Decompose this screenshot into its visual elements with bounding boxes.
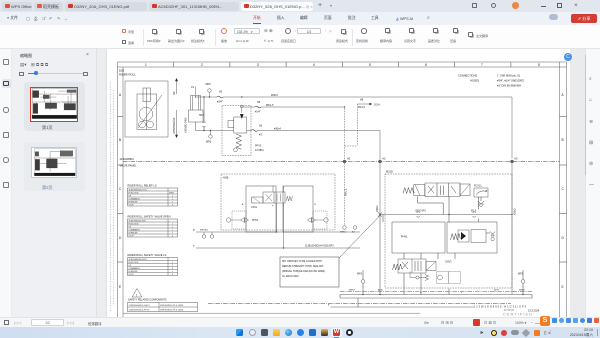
svg-text:#8x1,5: #8x1,5 <box>266 104 274 107</box>
svg-text:H2: H2 <box>219 91 223 94</box>
connections note (top right) <box>458 74 524 88</box>
orifice #1,0 <box>471 210 477 218</box>
hydraulic cylinder #100/80-2450 <box>189 87 204 131</box>
svg-text:8: 8 <box>538 63 540 67</box>
wire: LS pilot line to H5 <box>240 104 345 107</box>
panel boundary at rails (dash-dot) <box>340 290 532 292</box>
svg-text:MP63: MP63 <box>519 289 525 291</box>
svg-text:GSV1: GSV1 <box>445 261 452 264</box>
svg-text:IN RELIEF: IN RELIEF <box>129 271 139 273</box>
drawing frame <box>118 62 567 320</box>
svg-text:1: 1 <box>172 265 173 267</box>
test point MP1 <box>357 270 365 295</box>
proportional valve (M31D top) <box>403 183 470 197</box>
note box SP1 orifices <box>280 216 380 288</box>
copyright margin text (rotated) <box>111 82 114 312</box>
svg-text:STOP: STOP <box>129 274 135 276</box>
svg-text:FUNCTION: FUNCTION <box>129 224 139 226</box>
svg-text:1" SAE 8000 psi, 61: 1" SAE 8000 psi, 61 <box>497 74 521 78</box>
hose H3 <box>252 124 263 136</box>
svg-text:RIDER ROLL: RIDER ROLL <box>119 73 136 77</box>
flow control FCV11 <box>474 185 488 208</box>
svg-text:1: 1 <box>172 233 173 235</box>
svg-text:HSB: HSB <box>223 176 229 180</box>
test point MP5 <box>206 131 212 144</box>
svg-text:#25x3: #25x3 <box>271 94 278 97</box>
svg-text:FCV11: FCV11 <box>474 185 482 188</box>
wire: #25x3 turns down at right <box>511 97 513 159</box>
svg-text:T: T <box>193 244 195 248</box>
svg-text:Ø1,0: Ø1,0 <box>471 210 477 213</box>
svg-text:1: 1 <box>172 271 173 273</box>
svg-text:113KHB5D3: 113KHB5D3 <box>120 157 135 161</box>
svg-text:P: P <box>193 228 195 232</box>
svg-text:A: A <box>242 203 244 206</box>
svg-text:#20x3: #20x3 <box>514 208 517 215</box>
svg-text:B2 B: B2 B <box>494 289 499 291</box>
svg-text:MEDIUM STRENGHT HYDR. SEALANT: MEDIUM STRENGHT HYDR. SEALANT <box>282 265 324 268</box>
svg-text:I.E. ERGO #202: I.E. ERGO #202 <box>282 276 299 278</box>
svg-text:1: 1 <box>172 202 173 204</box>
svg-text:UP: UP <box>129 227 132 229</box>
svg-text:DOWNWARDS: DOWNWARDS <box>173 117 176 134</box>
hose H5 <box>255 101 261 114</box>
rail P <box>193 228 360 232</box>
svg-text:3: 3 <box>257 63 259 67</box>
svg-text:A: A <box>119 93 122 97</box>
svg-text:1: 1 <box>172 262 173 264</box>
table: rider roll relief ls <box>128 184 178 207</box>
node H5 <box>343 158 351 164</box>
svg-text:1HP4003110 PL4 CAT3: 1HP4003110 PL4 CAT3 <box>160 304 184 307</box>
M31D manifold (dashed box) <box>385 170 512 289</box>
svg-text:MP3 A3: MP3 A3 <box>200 229 208 232</box>
svg-text:VALVE PANEL: VALVE PANEL <box>120 164 138 168</box>
svg-text:T: T <box>461 293 463 295</box>
svg-text:M31D: M31D <box>386 170 393 174</box>
svg-text:STOP: STOP <box>129 205 135 207</box>
title D20 RIDER ROLL <box>119 69 136 77</box>
svg-text:PHV1: PHV1 <box>252 219 259 222</box>
svg-text:VIEW: VIEW <box>169 193 174 195</box>
svg-text:COMMANDS: COMMANDS <box>129 267 141 270</box>
svg-text:#1" DIN EN 856/4SH: #1" DIN EN 856/4SH <box>497 84 521 88</box>
wires HSB internal <box>273 186 284 248</box>
rail T <box>193 244 360 248</box>
svg-text:UP: UP <box>129 196 132 198</box>
node H2 <box>511 158 519 164</box>
svg-text:PFV3: PFV3 <box>255 145 262 148</box>
table: rider roll safety valve ls <box>128 253 178 276</box>
svg-text:113B1GH05D3-GSV1: 113B1GH05D3-GSV1 <box>129 259 147 261</box>
svg-text:D: D <box>562 236 565 240</box>
svg-text:C: C <box>562 187 565 191</box>
svg-text:H2: H2 <box>515 158 519 161</box>
manifold sub-block left <box>246 186 276 232</box>
svg-text:IN RELIEF: IN RELIEF <box>129 233 139 235</box>
wire: pressure line #25x3 <box>197 94 513 97</box>
wire: junction down to rail A2 <box>379 215 381 295</box>
svg-text:MP6: MP6 <box>206 83 212 86</box>
svg-text:SP3: SP3 <box>199 114 204 117</box>
valve GSV1 <box>393 253 437 295</box>
svg-text:P: P <box>420 293 422 295</box>
ball valve (right) <box>308 211 329 229</box>
svg-text:#30x4: #30x4 <box>376 205 379 212</box>
svg-text:!: ! <box>136 293 137 297</box>
test point MP2 <box>518 270 525 295</box>
svg-text:H5: H5 <box>347 158 351 161</box>
machine box (rider roll mechanism) <box>125 81 168 137</box>
pilot check valve row under GSV1 <box>410 261 461 284</box>
orifice SP3 <box>199 97 206 131</box>
svg-text:CONNECTIONS: CONNECTIONS <box>458 74 477 78</box>
svg-text:FUNCTION: FUNCTION <box>129 262 139 264</box>
svg-text:RIDER ROLL SAFETY VALVE OPEN: RIDER ROLL SAFETY VALVE OPEN <box>128 215 171 219</box>
ball valve PHV1 (left) <box>226 211 259 229</box>
return line T <box>328 303 474 307</box>
svg-text:C: C <box>119 187 122 191</box>
svg-text:H1: H1 <box>383 158 387 161</box>
svg-text:6: 6 <box>425 63 427 67</box>
svg-text:#1": #1" <box>259 133 263 136</box>
svg-text:MP2: MP2 <box>518 273 524 276</box>
svg-text:COMMANDS: COMMANDS <box>129 198 141 201</box>
svg-text:1: 1 <box>172 196 173 198</box>
svg-text:5: 5 <box>369 63 371 67</box>
svg-text:IN RELIEF: IN RELIEF <box>129 202 139 204</box>
valve panel boundary (dash-dot) <box>120 157 560 168</box>
svg-text:A2 A: A2 A <box>378 288 383 291</box>
svg-text:#8x1,5: #8x1,5 <box>345 188 348 196</box>
wire: cylinder line #30x4 <box>196 127 381 130</box>
svg-text:2: 2 <box>201 63 203 67</box>
svg-text:MP61: MP61 <box>340 232 346 234</box>
svg-text:MP62: MP62 <box>349 289 355 291</box>
svg-text:4: 4 <box>313 63 315 67</box>
svg-text:H5: H5 <box>257 101 261 104</box>
svg-text:B: B <box>562 138 564 142</box>
svg-text:CSV1: CSV1 <box>251 206 258 209</box>
svg-text:SP1 ORIFICES TO BE LOCKED WITH: SP1 ORIFICES TO BE LOCKED WITH <box>282 261 322 263</box>
svg-text:LS: LS <box>191 86 194 89</box>
svg-text:Ø0,8 SP1: Ø0,8 SP1 <box>416 210 427 213</box>
svg-text:1: 1 <box>172 199 173 201</box>
svg-text:H3: H3 <box>259 124 263 127</box>
svg-text:#100/80-2450: #100/80-2450 <box>185 117 188 133</box>
up arrow <box>175 78 178 94</box>
warning triangle <box>132 289 142 298</box>
sogou input bar <box>540 316 600 327</box>
svg-text:113B1GH05D3-PCV1: 113B1GH05D3-PCV1 <box>129 190 147 192</box>
relief valve PFV3 (dashed enclosure) <box>222 105 264 156</box>
HSB manifold (dashed box) <box>221 174 335 230</box>
svg-text:113B1GH05D3-GSV1: 113B1GH05D3-GSV1 <box>129 305 151 307</box>
svg-text:#8x1,5: #8x1,5 <box>358 107 366 109</box>
svg-text:113B1GH05D3-PFV5: 113B1GH05D3-PFV5 <box>129 310 151 312</box>
svg-text:COMMANDS: COMMANDS <box>129 229 141 232</box>
document page <box>107 49 570 318</box>
svg-text:0: 0 <box>172 236 173 238</box>
svg-text:PHV1: PHV1 <box>401 236 408 239</box>
svg-text:0: 0 <box>172 268 173 270</box>
panel boundary bottom (dash-dot) <box>123 304 511 314</box>
svg-text:P: P <box>272 206 274 208</box>
svg-text:B: B <box>119 138 121 142</box>
svg-text:2/3:A: 2/3:A <box>374 103 380 106</box>
table: safety related components <box>128 298 198 311</box>
svg-text:MP5: MP5 <box>206 141 212 144</box>
valve CSV1 (4/2 solenoid valve) <box>242 192 317 209</box>
wire: orifice line SP1 <box>378 197 512 217</box>
svg-text:SAFETY RELATED COMPONENTS: SAFETY RELATED COMPONENTS <box>128 298 167 301</box>
bottom rail B <box>340 289 532 308</box>
svg-text:#30x4: #30x4 <box>274 127 281 130</box>
ruler ticks and numbers <box>118 62 567 262</box>
svg-text:H8: H8 <box>360 99 364 102</box>
sub-block left (PHV1 chamber) <box>392 222 445 253</box>
svg-text:UP: UP <box>129 265 132 267</box>
svg-text:1: 1 <box>145 63 147 67</box>
svg-text:STOP: STOP <box>129 236 135 238</box>
title strip bottom <box>474 305 540 317</box>
svg-text:7: 7 <box>481 63 483 67</box>
svg-text:CERTIFIED: CERTIFIED <box>503 312 533 317</box>
svg-text:MP1: MP1 <box>357 273 363 276</box>
svg-text:B: B <box>315 204 317 206</box>
svg-text:D: D <box>119 236 122 240</box>
node H1 <box>379 131 387 164</box>
svg-text:#3/4": #3/4" <box>217 101 223 104</box>
svg-text:(PREVAIL TORQUE DNA (EN ISO 10: (PREVAIL TORQUE DNA (EN ISO 10964) <box>282 270 325 273</box>
svg-text:HOSES: HOSES <box>470 79 479 83</box>
svg-text:113B1GH5D3-HVG31/SP3: 113B1GH5D3-HVG31/SP3 <box>305 245 334 248</box>
svg-text:0: 0 <box>172 274 173 276</box>
wires M31D verticals <box>383 197 514 259</box>
svg-text:UP: UP <box>172 91 176 95</box>
svg-text:113W1GH5565-H1G31/SP3: 113W1GH5565-H1G31/SP3 <box>474 305 527 309</box>
test point MP3 <box>202 232 214 238</box>
node H8 branch to sheet 2/3:A <box>345 104 358 161</box>
hose H2 <box>217 91 223 104</box>
thumb 2 <box>24 142 85 191</box>
svg-text:RIDER ROLL SAFETY VALVE LS: RIDER ROLL SAFETY VALVE LS <box>128 253 167 257</box>
orifice SP1 #0,8 <box>416 210 427 218</box>
svg-text:E: E <box>562 285 564 289</box>
svg-text:E: E <box>119 285 121 289</box>
manifold sub-block right <box>283 186 313 232</box>
svg-text:RIDER ROLL RELIEF LS: RIDER ROLL RELIEF LS <box>128 184 157 188</box>
svg-text:1HP4003110 PL4 CAT3: 1HP4003110 PL4 CAT3 <box>160 309 184 312</box>
bottom rail A <box>340 288 532 294</box>
svg-text:FUNCTION: FUNCTION <box>129 193 139 195</box>
svg-text:14 MPa: 14 MPa <box>255 149 264 152</box>
thumb 1 selected <box>24 82 85 131</box>
svg-text:A: A <box>562 93 565 97</box>
svg-text:1: 1 <box>172 227 173 229</box>
wire: #30x4 drop to M31D <box>376 163 380 214</box>
wire: #20x3 drop on right <box>512 163 517 294</box>
pilot relief cartridge block <box>447 222 497 253</box>
svg-text:113B1GH05D3-GSV: 113B1GH05D3-GSV <box>129 221 147 223</box>
test point MP6 <box>206 83 212 97</box>
svg-text:1: 1 <box>172 224 173 226</box>
svg-text:1: 1 <box>172 230 173 232</box>
table: rider roll safety valve open <box>128 215 178 238</box>
down arrow <box>175 110 178 138</box>
svg-text:#1/4": #1/4" <box>255 111 261 114</box>
svg-text:0: 0 <box>172 205 173 207</box>
svg-text:#3/4", #1/4" SAE100R2: #3/4", #1/4" SAE100R2 <box>497 79 524 83</box>
wire: dashed LS drop to panel <box>340 163 357 233</box>
